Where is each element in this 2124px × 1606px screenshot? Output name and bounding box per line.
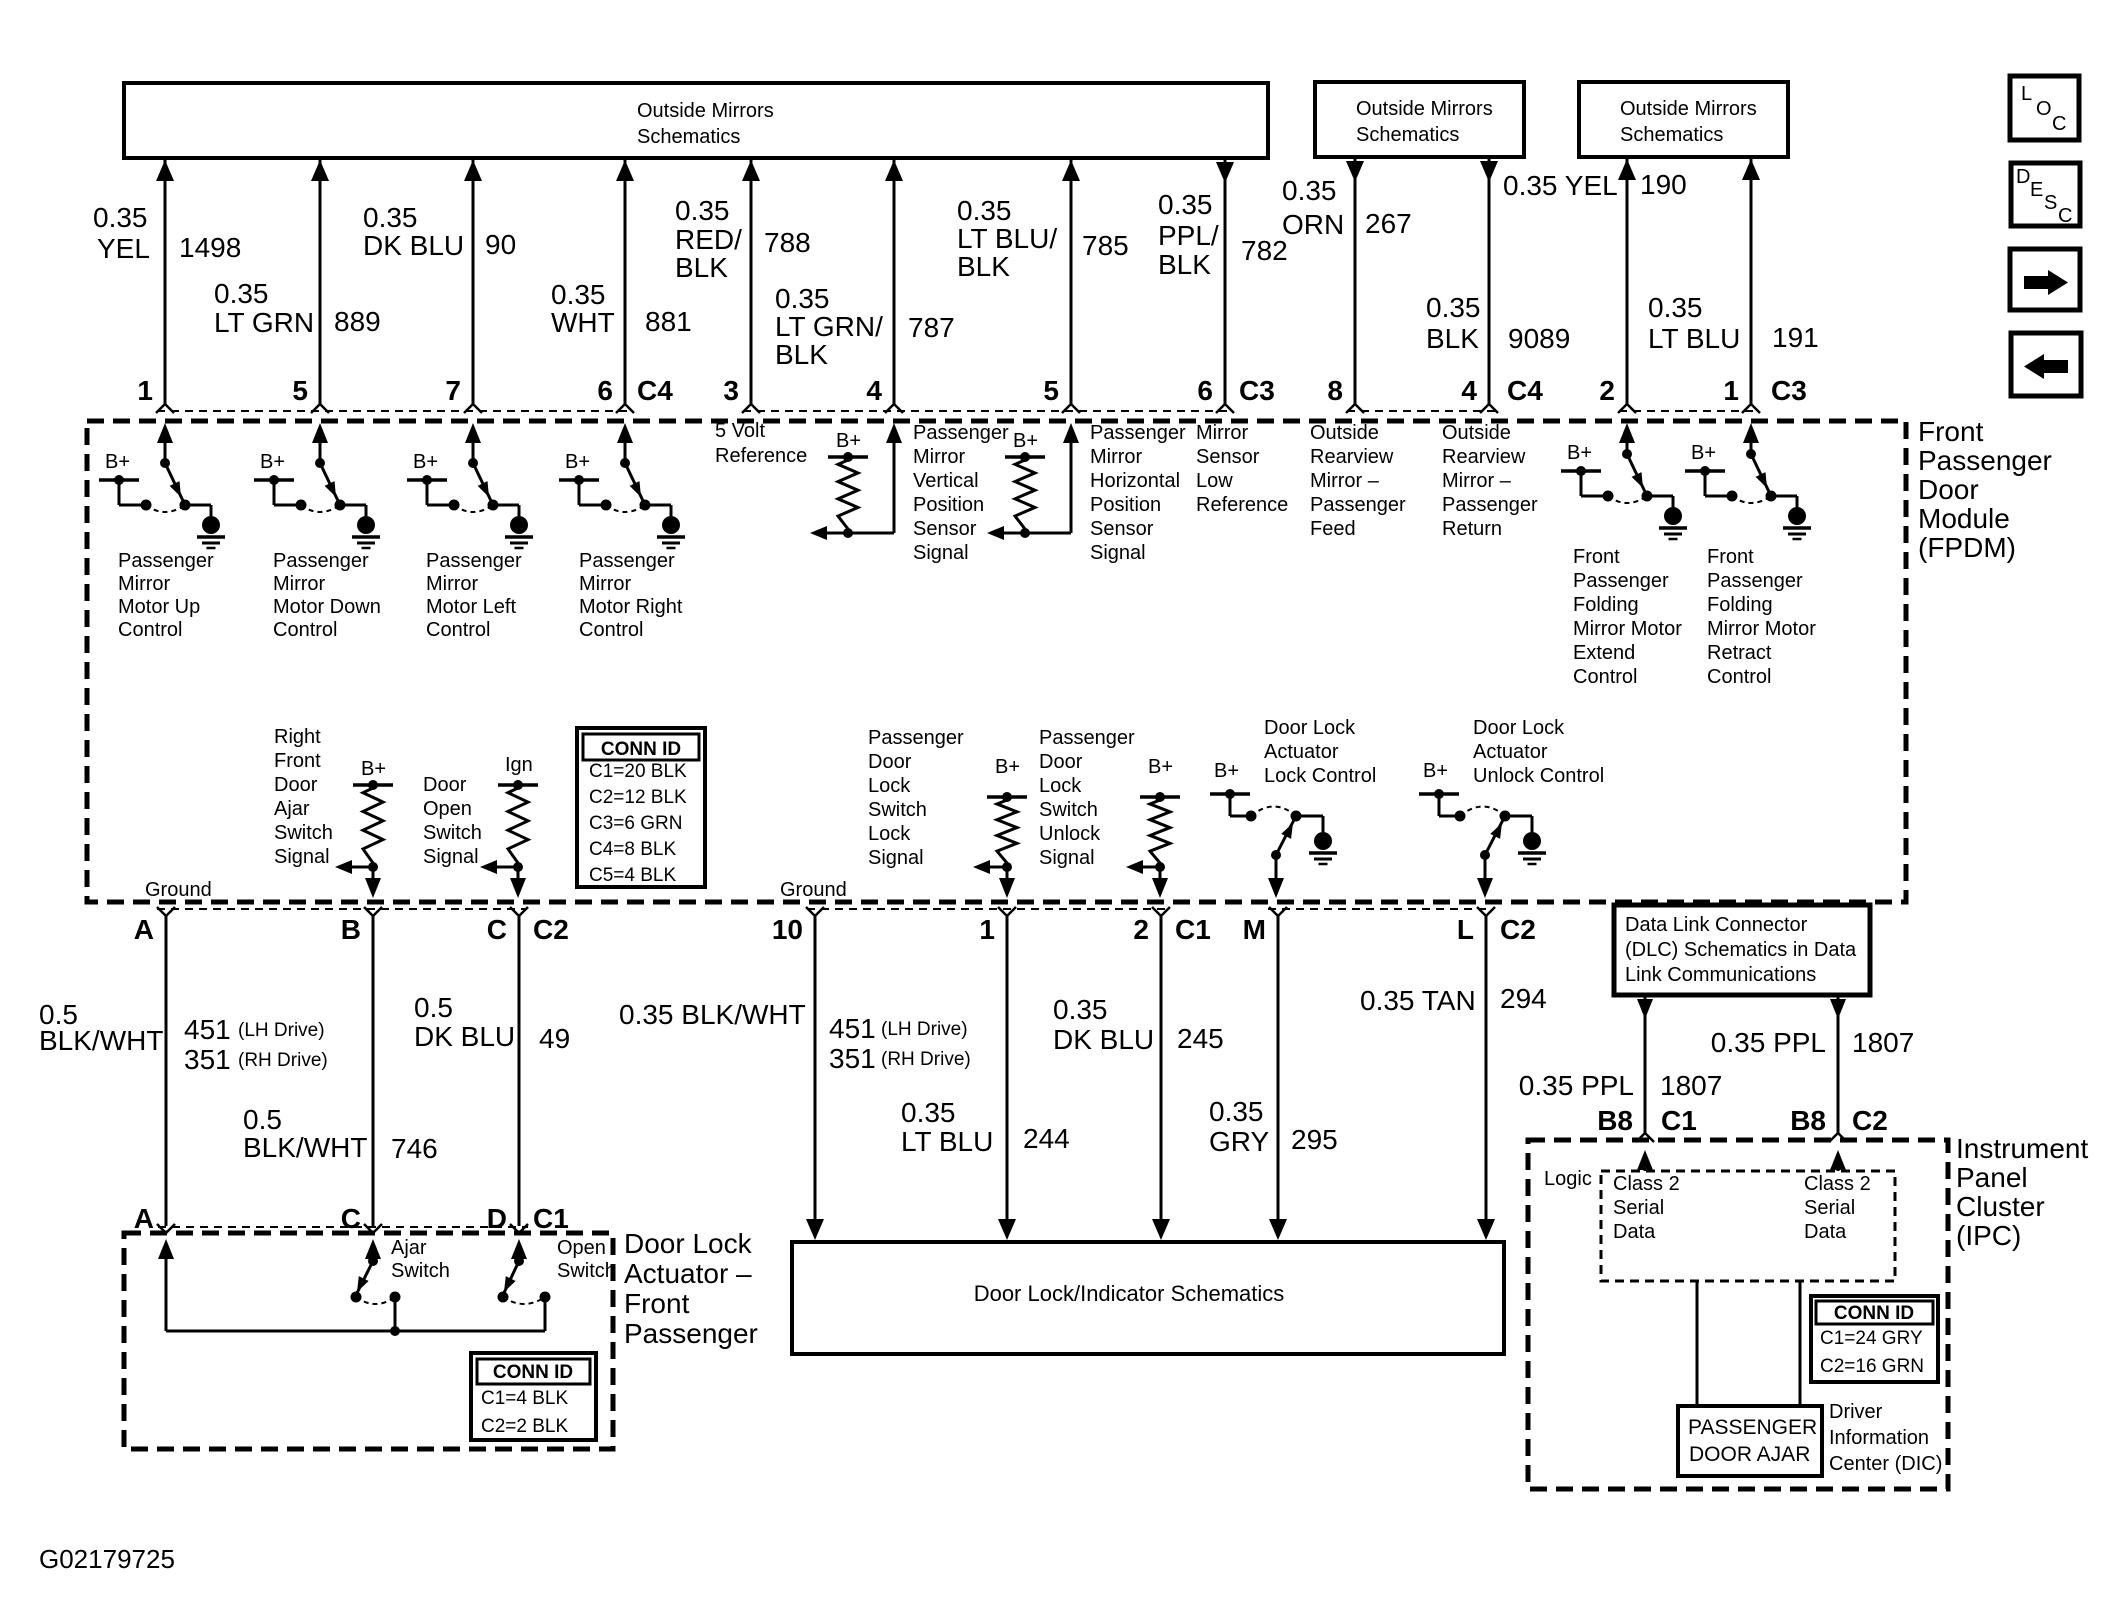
svg-text:Signal: Signal — [913, 542, 969, 564]
svg-text:BLK: BLK — [1426, 323, 1479, 354]
pin 10 (FPDM bottom) — [806, 907, 815, 916]
svg-text:Class 2: Class 2 — [1804, 1173, 1871, 1195]
svg-text:BLK: BLK — [675, 252, 728, 283]
resistor: Passenger Door Lock Switch Lock Signal (pin 1) — [868, 727, 1027, 898]
button LOC — [2010, 76, 2079, 140]
svg-text:C4: C4 — [637, 375, 673, 406]
svg-text:S: S — [2044, 192, 2057, 214]
button right-arrow — [2010, 249, 2080, 310]
svg-text:9089: 9089 — [1508, 323, 1570, 354]
svg-text:Mirror: Mirror — [579, 573, 632, 595]
wire 245 DK BLU (pin 2 to Door Lock/Indicator) — [1053, 916, 1224, 1240]
switch: Passenger Mirror Motor Down Control — [254, 423, 381, 641]
svg-text:Control: Control — [579, 619, 643, 641]
svg-text:Door: Door — [1918, 474, 1979, 505]
svg-text:0.35 PPL: 0.35 PPL — [1519, 1070, 1634, 1101]
svg-text:DK BLU: DK BLU — [414, 1021, 515, 1052]
svg-text:Passenger: Passenger — [1442, 494, 1538, 516]
wire: logic box to Passenger Door Ajar (left) — [1696, 1281, 1699, 1406]
svg-text:Signal: Signal — [274, 846, 330, 868]
svg-text:E: E — [2030, 179, 2043, 201]
svg-text:Folding: Folding — [1573, 594, 1639, 616]
svg-text:0.35: 0.35 — [1158, 189, 1213, 220]
wire 294 TAN (pin L to Door Lock/Indicator) — [1360, 916, 1547, 1240]
svg-text:0.35 TAN: 0.35 TAN — [1360, 985, 1476, 1016]
svg-text:C: C — [2052, 113, 2066, 135]
svg-text:Door Lock: Door Lock — [1264, 717, 1356, 739]
svg-text:Signal: Signal — [423, 846, 479, 868]
svg-text:Sensor: Sensor — [913, 518, 977, 540]
svg-text:Logic: Logic — [1544, 1168, 1592, 1190]
svg-text:881: 881 — [645, 306, 692, 337]
svg-text:B+: B+ — [1148, 756, 1173, 778]
svg-text:C: C — [2058, 205, 2072, 227]
svg-text:Passenger: Passenger — [868, 727, 964, 749]
svg-text:Passenger: Passenger — [624, 1318, 758, 1349]
svg-text:YEL: YEL — [97, 233, 150, 264]
svg-text:8: 8 — [1327, 375, 1343, 406]
svg-text:B+: B+ — [995, 756, 1020, 778]
svg-text:Motor Up: Motor Up — [118, 596, 200, 618]
svg-text:B8: B8 — [1790, 1105, 1826, 1136]
resistor: Door Open Switch Signal (pin C, Ign) — [423, 754, 538, 898]
svg-text:CONN ID: CONN ID — [601, 739, 681, 760]
svg-text:Door Lock/Indicator Schematics: Door Lock/Indicator Schematics — [974, 1281, 1285, 1306]
connector C2 thin dashed line (pins A,B,C) — [157, 908, 527, 910]
svg-text:BLK/WHT: BLK/WHT — [39, 1025, 163, 1056]
Door Lock Actuator - Front Passenger dashed box — [124, 1233, 613, 1449]
wire 451/351 BLK/WHT (pin 10 to Door Lock/Indicator) — [619, 916, 971, 1240]
svg-text:267: 267 — [1365, 208, 1412, 239]
svg-text:0.35 PPL: 0.35 PPL — [1711, 1027, 1826, 1058]
svg-text:Ajar: Ajar — [274, 798, 310, 820]
wire 1807 PPL (DLC to IPC pin C1) — [1519, 997, 1723, 1142]
svg-text:Serial: Serial — [1613, 1197, 1664, 1219]
svg-text:Switch: Switch — [557, 1260, 616, 1282]
pin A (FPDM bottom) — [157, 907, 166, 916]
svg-text:Horizontal: Horizontal — [1090, 470, 1180, 492]
svg-text:Passenger: Passenger — [1573, 570, 1669, 592]
svg-text:295: 295 — [1291, 1124, 1338, 1155]
svg-text:(RH Drive): (RH Drive) — [881, 1049, 971, 1070]
svg-text:Rearview: Rearview — [1442, 446, 1526, 468]
svg-text:Unlock Control: Unlock Control — [1473, 765, 1604, 787]
wire: IPC pin C2 into logic box — [1830, 1150, 1846, 1171]
svg-text:Passenger: Passenger — [1039, 727, 1135, 749]
svg-text:Cluster: Cluster — [1956, 1191, 2045, 1222]
switch: Door Lock Actuator Lock Control (pin M) — [1210, 717, 1376, 898]
svg-text:Door: Door — [1039, 751, 1083, 773]
svg-text:Switch: Switch — [1039, 799, 1098, 821]
svg-text:2: 2 — [1133, 914, 1149, 945]
svg-text:Door: Door — [868, 751, 912, 773]
wire 1807 PPL (DLC to IPC pin C2) — [1711, 997, 1915, 1142]
svg-text:Passenger: Passenger — [1918, 445, 2052, 476]
svg-text:5 Volt: 5 Volt — [715, 420, 765, 442]
svg-text:Information: Information — [1829, 1427, 1929, 1449]
svg-text:Switch: Switch — [868, 799, 927, 821]
svg-text:0.35: 0.35 — [1053, 994, 1108, 1025]
svg-text:Motor Right: Motor Right — [579, 596, 683, 618]
svg-text:0.35: 0.35 — [363, 202, 418, 233]
wire 881 WHT (pin 6 C4) — [551, 160, 692, 413]
svg-text:Ground: Ground — [145, 879, 212, 901]
svg-text:787: 787 — [908, 312, 955, 343]
svg-text:D: D — [487, 1203, 507, 1234]
svg-text:LT BLU/: LT BLU/ — [957, 223, 1057, 254]
svg-text:Passenger: Passenger — [1707, 570, 1803, 592]
svg-text:0.35: 0.35 — [675, 195, 730, 226]
svg-text:Open: Open — [423, 798, 472, 820]
connector C3 thin dashed line (top pins 3-6) — [743, 410, 1232, 412]
pin D / C1 (actuator) — [510, 1224, 519, 1233]
svg-text:B+: B+ — [836, 430, 861, 452]
svg-text:889: 889 — [334, 306, 381, 337]
svg-text:Door: Door — [423, 774, 467, 796]
wire 267 ORN (pin 8) — [1282, 159, 1412, 413]
svg-text:CONN ID: CONN ID — [1834, 1303, 1914, 1324]
svg-text:Mirror –: Mirror – — [1442, 470, 1512, 492]
svg-text:B+: B+ — [1423, 760, 1448, 782]
svg-text:Lock Control: Lock Control — [1264, 765, 1376, 787]
svg-text:Mirror: Mirror — [1090, 446, 1143, 468]
svg-text:GRY: GRY — [1209, 1126, 1269, 1157]
wire 90 DK BLU (pin 7) — [363, 160, 516, 413]
wire: IPC pin C1 into logic box — [1637, 1150, 1653, 1171]
svg-text:0.35 YEL: 0.35 YEL — [1503, 170, 1618, 201]
svg-text:294: 294 — [1500, 983, 1547, 1014]
svg-text:ORN: ORN — [1282, 209, 1344, 240]
svg-text:Mirror: Mirror — [273, 573, 326, 595]
svg-text:M: M — [1243, 914, 1266, 945]
svg-text:C1: C1 — [1661, 1105, 1697, 1136]
svg-text:Passenger: Passenger — [118, 550, 214, 572]
svg-text:Control: Control — [426, 619, 490, 641]
svg-text:Mirror: Mirror — [426, 573, 479, 595]
svg-text:DK BLU: DK BLU — [1053, 1024, 1154, 1055]
svg-text:Passenger: Passenger — [1090, 422, 1186, 444]
wire 190 YEL (pin 2) — [1503, 159, 1687, 413]
wire 295 GRY (pin M to Door Lock/Indicator) — [1209, 916, 1338, 1240]
svg-text:245: 245 — [1177, 1023, 1224, 1054]
svg-text:B+: B+ — [1691, 442, 1716, 464]
connector C4 thin dashed line (pins 8,4) — [1347, 410, 1496, 412]
svg-text:Outside: Outside — [1310, 422, 1379, 444]
svg-text:CONN ID: CONN ID — [493, 1362, 573, 1383]
svg-text:Mirror: Mirror — [913, 446, 966, 468]
svg-text:C3: C3 — [1771, 375, 1807, 406]
svg-text:(DLC) Schematics in Data: (DLC) Schematics in Data — [1625, 939, 1857, 961]
CONN ID table (actuator) — [471, 1353, 596, 1440]
svg-text:C2: C2 — [533, 914, 569, 945]
svg-text:C5=4 BLK: C5=4 BLK — [589, 865, 676, 886]
svg-text:BLK: BLK — [957, 251, 1010, 282]
svg-text:Position: Position — [1090, 494, 1161, 516]
svg-text:Reference: Reference — [1196, 494, 1288, 516]
svg-text:0.35: 0.35 — [1648, 292, 1703, 323]
wire 1498 YEL (pin 1) — [93, 160, 241, 413]
svg-text:451: 451 — [829, 1013, 876, 1044]
switch: Passenger Mirror Motor Up Control — [99, 423, 225, 641]
svg-text:351: 351 — [184, 1044, 231, 1075]
svg-text:7: 7 — [445, 375, 461, 406]
box: Door Lock/Indicator Schematics — [792, 1242, 1504, 1354]
svg-text:1807: 1807 — [1852, 1027, 1914, 1058]
resistor: Passenger Mirror Vertical Position Sensor (pin 4) — [810, 422, 1009, 564]
svg-text:B8: B8 — [1597, 1105, 1633, 1136]
svg-text:49: 49 — [539, 1023, 570, 1054]
svg-text:0.5: 0.5 — [243, 1104, 282, 1135]
svg-text:Passenger: Passenger — [273, 550, 369, 572]
switch: Door Lock Actuator Unlock Control (pin L) — [1419, 717, 1604, 898]
svg-text:Front: Front — [1707, 546, 1754, 568]
svg-text:RED/: RED/ — [675, 224, 742, 255]
svg-text:Ground: Ground — [780, 879, 847, 901]
svg-text:LT GRN/: LT GRN/ — [775, 311, 883, 342]
svg-text:Schematics: Schematics — [637, 126, 740, 148]
pin 2 / C1 (FPDM bottom) — [1152, 907, 1161, 916]
svg-text:351: 351 — [829, 1043, 876, 1074]
wire 49 DK BLU (pin C to actuator pin D) — [414, 916, 570, 1226]
CONN ID table (IPC) — [1811, 1296, 1938, 1382]
svg-text:LT GRN: LT GRN — [214, 307, 314, 338]
svg-text:C4: C4 — [1507, 375, 1543, 406]
CONN ID table (FPDM) — [577, 728, 705, 887]
box: PASSENGER DOOR AJAR indicator — [1678, 1406, 1822, 1476]
svg-text:Mirror: Mirror — [1196, 422, 1249, 444]
svg-text:0.35: 0.35 — [1426, 292, 1481, 323]
svg-text:Serial: Serial — [1804, 1197, 1855, 1219]
svg-text:Sensor: Sensor — [1090, 518, 1154, 540]
svg-text:Door Lock: Door Lock — [624, 1228, 753, 1259]
pin M (FPDM bottom) — [1269, 907, 1278, 916]
svg-text:G02179725: G02179725 — [39, 1544, 175, 1574]
svg-text:C2: C2 — [1852, 1105, 1888, 1136]
svg-text:Control: Control — [118, 619, 182, 641]
svg-text:Mirror Motor: Mirror Motor — [1707, 618, 1816, 640]
svg-text:Outside Mirrors: Outside Mirrors — [1620, 98, 1757, 120]
wire 788 RED/BLK (pin 3) — [675, 160, 811, 413]
pin 1 (FPDM bottom) — [998, 907, 1007, 916]
svg-text:C1: C1 — [1175, 914, 1211, 945]
pin C (actuator) — [364, 1224, 373, 1233]
svg-text:1: 1 — [979, 914, 995, 945]
svg-text:Control: Control — [1573, 666, 1637, 688]
svg-text:0.35: 0.35 — [901, 1097, 956, 1128]
svg-text:Open: Open — [557, 1237, 606, 1259]
svg-text:Center (DIC): Center (DIC) — [1829, 1453, 1942, 1475]
svg-text:1: 1 — [1723, 375, 1739, 406]
svg-text:B+: B+ — [1214, 760, 1239, 782]
wire 782 PPL/BLK (pin 6 C3) — [1158, 160, 1288, 413]
svg-text:Front: Front — [274, 750, 321, 772]
switch: Ajar Switch (actuator) — [351, 1237, 450, 1331]
svg-text:Mirror: Mirror — [118, 573, 171, 595]
svg-text:1498: 1498 — [179, 232, 241, 263]
svg-text:10: 10 — [772, 914, 803, 945]
svg-text:5: 5 — [292, 375, 308, 406]
svg-text:C3: C3 — [1239, 375, 1275, 406]
svg-text:C2=12 BLK: C2=12 BLK — [589, 787, 687, 808]
svg-text:Panel: Panel — [1956, 1162, 2028, 1193]
svg-text:0.35 BLK/WHT: 0.35 BLK/WHT — [619, 999, 806, 1030]
svg-text:0.35: 0.35 — [1282, 175, 1337, 206]
svg-text:Switch: Switch — [391, 1260, 450, 1282]
svg-text:Lock: Lock — [868, 823, 911, 845]
svg-text:Return: Return — [1442, 518, 1502, 540]
resistor: Right Front Door Ajar Switch Signal (pin B) — [274, 726, 393, 898]
svg-text:6: 6 — [597, 375, 613, 406]
svg-text:Extend: Extend — [1573, 642, 1635, 664]
svg-text:B+: B+ — [565, 451, 590, 473]
svg-text:B: B — [341, 914, 361, 945]
svg-text:785: 785 — [1082, 230, 1129, 261]
svg-text:Actuator –: Actuator – — [624, 1258, 752, 1289]
svg-text:4: 4 — [1461, 375, 1477, 406]
svg-text:Control: Control — [273, 619, 337, 641]
svg-text:Driver: Driver — [1829, 1401, 1883, 1423]
svg-text:B+: B+ — [105, 451, 130, 473]
svg-text:O: O — [2036, 98, 2052, 120]
svg-text:C: C — [487, 914, 507, 945]
Instrument Panel Cluster (IPC) dashed box — [1528, 1140, 1948, 1489]
connector C1 thin dashed line (actuator pins A,C,D) — [158, 1226, 528, 1228]
svg-text:Front: Front — [624, 1288, 690, 1319]
svg-text:PPL/: PPL/ — [1158, 220, 1219, 251]
svg-text:788: 788 — [764, 227, 811, 258]
svg-text:1807: 1807 — [1660, 1070, 1722, 1101]
wire 191 LT BLU (pin 1 C3) — [1648, 159, 1819, 413]
svg-text:Low: Low — [1196, 470, 1233, 492]
svg-text:Front: Front — [1573, 546, 1620, 568]
button DESC — [2011, 163, 2080, 227]
svg-text:191: 191 — [1772, 322, 1819, 353]
pin B (FPDM bottom) — [364, 907, 373, 916]
svg-text:(IPC): (IPC) — [1956, 1220, 2021, 1251]
svg-text:0.35: 0.35 — [551, 279, 606, 310]
svg-text:Outside Mirrors: Outside Mirrors — [637, 100, 774, 122]
svg-text:C2: C2 — [1500, 914, 1536, 945]
svg-text:Reference: Reference — [715, 445, 807, 467]
svg-text:WHT: WHT — [551, 307, 615, 338]
svg-text:PASSENGER: PASSENGER — [1688, 1416, 1817, 1439]
svg-text:DOOR AJAR: DOOR AJAR — [1689, 1443, 1810, 1466]
switch: Passenger Mirror Motor Left Control — [407, 423, 533, 641]
svg-text:(LH Drive): (LH Drive) — [238, 1020, 325, 1041]
wire 244 LT BLU (pin 1 to Door Lock/Indicator) — [901, 916, 1070, 1240]
svg-text:Door Lock: Door Lock — [1473, 717, 1565, 739]
svg-text:DK BLU: DK BLU — [363, 230, 464, 261]
switch: Front Passenger Folding Mirror Motor Retract Control — [1685, 423, 1816, 688]
connector C1 thin dashed line (pins 10,1,2) — [807, 908, 1170, 910]
svg-text:Sensor: Sensor — [1196, 446, 1260, 468]
svg-text:Lock: Lock — [868, 775, 911, 797]
svg-text:Lock: Lock — [1039, 775, 1082, 797]
svg-text:A: A — [134, 1203, 154, 1234]
svg-text:Rearview: Rearview — [1310, 446, 1394, 468]
svg-text:Mirror Motor: Mirror Motor — [1573, 618, 1682, 640]
svg-text:Instrument: Instrument — [1956, 1133, 2088, 1164]
svg-text:0.35: 0.35 — [775, 283, 830, 314]
box: Data Link Connector (DLC) Schematics — [1614, 905, 1870, 995]
svg-text:L: L — [2021, 83, 2032, 105]
svg-text:L: L — [1457, 914, 1474, 945]
svg-text:Ign: Ign — [505, 754, 533, 776]
svg-text:C1=24 GRY: C1=24 GRY — [1820, 1328, 1923, 1349]
svg-text:Front: Front — [1918, 416, 1984, 447]
svg-text:0.35: 0.35 — [214, 278, 269, 309]
svg-text:1: 1 — [137, 375, 153, 406]
svg-text:Data: Data — [1804, 1221, 1847, 1243]
svg-text:Feed: Feed — [1310, 518, 1356, 540]
svg-text:Motor Down: Motor Down — [273, 596, 381, 618]
svg-text:LT BLU: LT BLU — [1648, 323, 1740, 354]
svg-text:Passenger: Passenger — [579, 550, 675, 572]
svg-text:Signal: Signal — [1039, 847, 1095, 869]
svg-text:A: A — [134, 914, 154, 945]
button left-arrow — [2011, 333, 2081, 396]
svg-text:Folding: Folding — [1707, 594, 1773, 616]
pin C / C2 (FPDM bottom) — [510, 907, 519, 916]
svg-text:C2=16 GRN: C2=16 GRN — [1820, 1356, 1924, 1377]
svg-text:C1=20 BLK: C1=20 BLK — [589, 761, 687, 782]
resistor: Passenger Door Lock Switch Unlock Signal (pin 2) — [1039, 727, 1180, 898]
svg-text:190: 190 — [1640, 169, 1687, 200]
svg-text:Signal: Signal — [868, 847, 924, 869]
wire 785 LT BLU/BLK (pin 5 C3) — [957, 160, 1129, 413]
svg-text:Link Communications: Link Communications — [1625, 964, 1816, 986]
svg-text:2: 2 — [1599, 375, 1615, 406]
svg-text:Outside: Outside — [1442, 422, 1511, 444]
svg-text:Signal: Signal — [1090, 542, 1146, 564]
svg-text:3: 3 — [723, 375, 739, 406]
svg-text:Schematics: Schematics — [1356, 124, 1459, 146]
Logic dashed box (IPC) — [1601, 1171, 1895, 1281]
switch: Passenger Mirror Motor Right Control — [559, 423, 685, 641]
svg-text:Actuator: Actuator — [1473, 741, 1548, 763]
svg-text:C1: C1 — [533, 1203, 569, 1234]
svg-text:90: 90 — [485, 229, 516, 260]
svg-text:Class 2: Class 2 — [1613, 1173, 1680, 1195]
wire 746 BLK/WHT (pin B to actuator pin C) — [243, 916, 438, 1226]
svg-text:(FPDM): (FPDM) — [1918, 532, 2016, 563]
svg-text:C3=6 GRN: C3=6 GRN — [589, 813, 682, 834]
svg-text:Data: Data — [1613, 1221, 1656, 1243]
connector C2 thin dashed line (pins M,L) — [1268, 908, 1494, 910]
svg-text:BLK: BLK — [775, 339, 828, 370]
svg-text:0.35: 0.35 — [93, 202, 148, 233]
svg-text:Mirror –: Mirror – — [1310, 470, 1380, 492]
svg-text:782: 782 — [1241, 235, 1288, 266]
svg-text:D: D — [2016, 166, 2030, 188]
svg-text:Vertical: Vertical — [913, 470, 979, 492]
svg-text:Switch: Switch — [423, 822, 482, 844]
box: Outside Mirrors Schematics (mid) — [1315, 82, 1524, 157]
svg-text:B+: B+ — [413, 451, 438, 473]
svg-text:(LH Drive): (LH Drive) — [881, 1019, 968, 1040]
svg-text:Passenger: Passenger — [1310, 494, 1406, 516]
svg-text:6: 6 — [1197, 375, 1213, 406]
switch: Open Switch (actuator) — [498, 1237, 616, 1331]
svg-text:Module: Module — [1918, 503, 2010, 534]
svg-text:0.35: 0.35 — [957, 195, 1012, 226]
svg-text:Actuator: Actuator — [1264, 741, 1339, 763]
svg-text:Control: Control — [1707, 666, 1771, 688]
svg-text:746: 746 — [391, 1133, 438, 1164]
pin A (actuator) — [157, 1224, 166, 1233]
connector C4 thin dashed line (top pins 1-6) — [157, 410, 632, 412]
box: Outside Mirrors Schematics (right) — [1579, 82, 1788, 157]
